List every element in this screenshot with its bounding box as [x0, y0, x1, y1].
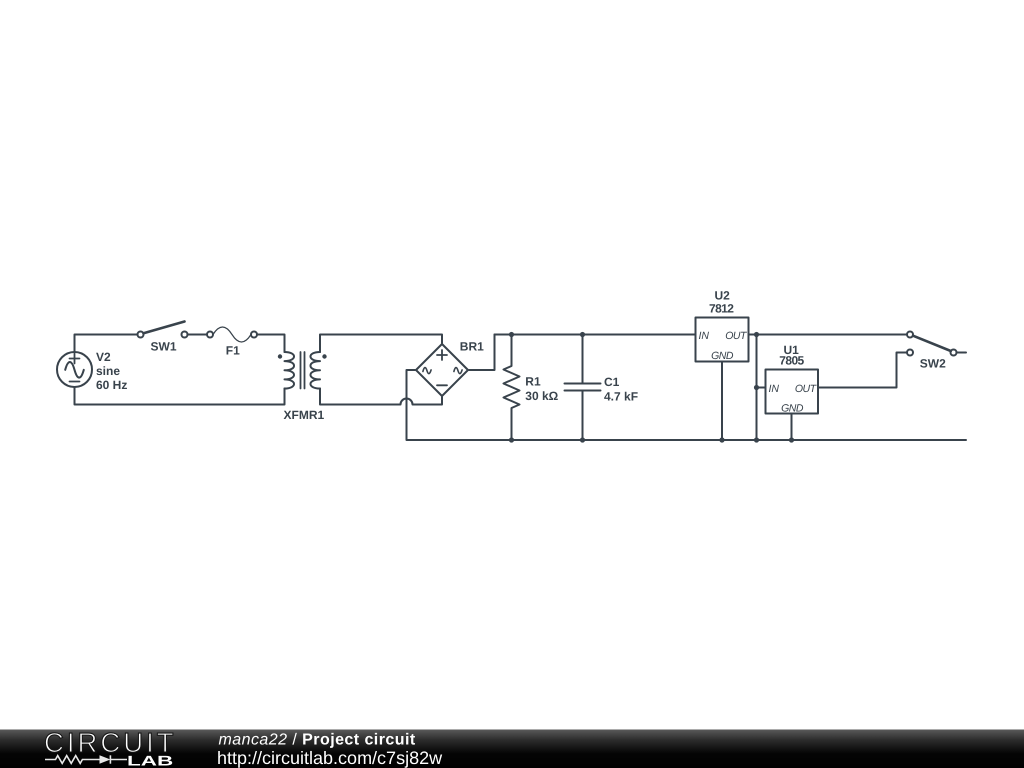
capacitor C1 — [565, 335, 601, 441]
wire F1 to XFMR1 primary — [257, 335, 285, 353]
svg-text:F1: F1 — [226, 344, 240, 358]
svg-text:7812: 7812 — [709, 301, 734, 315]
regulator U2 box — [696, 318, 749, 362]
wire XFMR1 secondary bottom to BR1 (with hop) — [320, 389, 442, 405]
wire SW1 to F1 — [188, 334, 208, 336]
svg-text:R1: R1 — [525, 375, 541, 389]
svg-text:4.7 kF: 4.7 kF — [604, 390, 638, 404]
svg-text:U2: U2 — [715, 288, 731, 302]
logo diode triangle — [100, 755, 111, 763]
node U1 GND — [789, 437, 794, 442]
node U1 IN — [754, 385, 759, 390]
svg-text:GND: GND — [711, 350, 734, 362]
pin labels — [699, 330, 818, 414]
svg-text:BR1: BR1 — [460, 340, 484, 354]
svg-text:LAB: LAB — [127, 753, 173, 768]
node mid rail — [754, 437, 759, 442]
svg-text:SW1: SW1 — [151, 340, 177, 354]
svg-text:IN: IN — [769, 383, 780, 395]
wire U2 GND to rail — [721, 362, 723, 441]
component labels — [96, 288, 946, 422]
switch SW2 — [907, 332, 957, 356]
svg-text:sine: sine — [96, 364, 120, 378]
svg-text:http://circuitlab.com/c7sj82w: http://circuitlab.com/c7sj82w — [217, 748, 443, 768]
wire U1 OUT to SW2 — [818, 353, 907, 388]
svg-text:XFMR1: XFMR1 — [284, 408, 325, 422]
wire to U1 IN — [757, 387, 766, 389]
wire U1 GND to rail — [791, 414, 793, 441]
logo resistor-diode art — [45, 755, 127, 763]
transformer XFMR1 — [278, 352, 327, 389]
svg-text:OUT: OUT — [725, 330, 748, 342]
node R1 top — [509, 332, 514, 337]
bridge rectifier BR1 — [416, 344, 468, 396]
footer bar — [0, 730, 1024, 768]
svg-text:SW2: SW2 — [920, 357, 946, 371]
node R1 bottom — [509, 437, 514, 442]
regulator U1 box — [766, 370, 819, 414]
node C1 top — [580, 332, 585, 337]
junction dots — [509, 332, 794, 443]
svg-text:V2: V2 — [96, 350, 111, 364]
wire SW2 output — [957, 352, 967, 354]
svg-text:manca22 / Project circuit: manca22 / Project circuit — [219, 731, 416, 748]
svg-text:60 Hz: 60 Hz — [96, 378, 127, 392]
node U2 GND — [719, 437, 724, 442]
wire BR1 right vertex to top rail — [469, 335, 495, 371]
svg-text:C1: C1 — [604, 375, 620, 389]
svg-text:30 kΩ: 30 kΩ — [525, 389, 558, 403]
wire BR1 left vertex down and bottom rail — [407, 370, 967, 440]
fuse F1 — [207, 327, 257, 342]
resistor R1 — [504, 335, 520, 441]
wire XFMR1 primary bottom to V2 — [75, 388, 285, 405]
wire vertical from OUT dot down — [756, 335, 758, 441]
wire V2 top lead to SW1 — [75, 335, 138, 353]
svg-text:IN: IN — [699, 330, 710, 342]
wire top rail to U2 IN — [495, 334, 696, 336]
voltage source V2 — [57, 352, 92, 387]
switch SW1 — [138, 322, 188, 338]
svg-text:7805: 7805 — [779, 354, 804, 368]
svg-text:GND: GND — [781, 403, 804, 415]
node C1 bottom — [580, 437, 585, 442]
wire XFMR1 secondary top to BR1 — [320, 335, 442, 353]
node U2 OUT — [754, 332, 759, 337]
svg-text:OUT: OUT — [795, 383, 818, 395]
wire U2 OUT to SW2 — [749, 334, 908, 336]
